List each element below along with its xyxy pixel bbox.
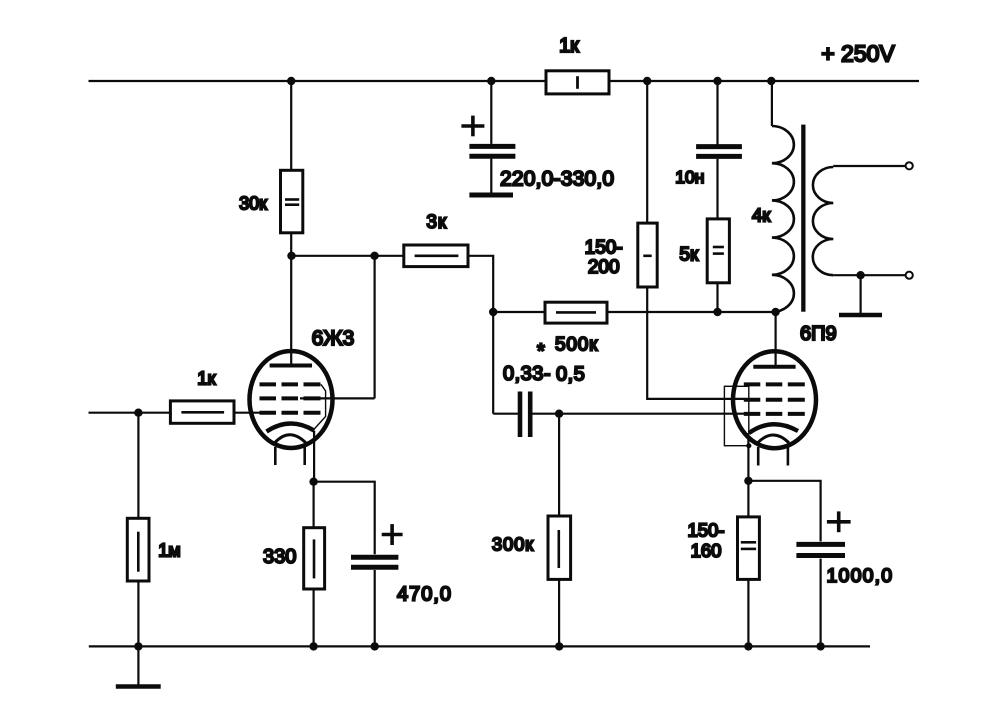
wire: 500k right lead to anode of V2 bbox=[607, 311, 776, 313]
heater arc of V2 bbox=[757, 435, 789, 443]
resistor 1M grid leak, with power mark bbox=[127, 518, 149, 581]
resistor 1k (supply dropper), with 1W power mark bbox=[546, 71, 609, 94]
svg-text:6П9: 6П9 bbox=[800, 323, 837, 345]
node: junction dot secondary ground tap bbox=[856, 271, 864, 279]
resistor 5k snubber, with power marks bbox=[707, 219, 729, 283]
node: junction dot primary bottom / anode bbox=[771, 308, 779, 316]
capacitor 470,0 cathode bypass bbox=[351, 557, 398, 646]
resistor 300k grid leak of V2, with power mark bbox=[548, 516, 571, 579]
wire: 300k top lead bbox=[558, 414, 560, 516]
ground: filter cap ground bar bbox=[469, 193, 513, 198]
wire: 1M bottom lead bbox=[137, 581, 139, 646]
svg-text:1к: 1к bbox=[559, 35, 579, 57]
resistor 150-160 cathode bias of V2, with power marks bbox=[738, 517, 760, 580]
tube V1 6Ж3 envelope bbox=[250, 351, 333, 448]
wire: 300k bottom lead bbox=[558, 579, 560, 646]
svg-text:1м: 1м bbox=[158, 541, 180, 561]
tube V2 6П9 envelope bbox=[733, 351, 816, 448]
wire: 150-160 bottom to rail bbox=[747, 579, 749, 646]
wire: 30k bottom to anode of V1 bbox=[290, 233, 292, 364]
svg-text:200: 200 bbox=[588, 257, 620, 278]
wire: 1k to V1 control grid bbox=[234, 412, 262, 414]
capacitor 220,0-330,0 electrolytic (filter), from rail bbox=[469, 81, 515, 193]
terminal: output bottom circle bbox=[906, 272, 913, 279]
grid g3 dashes of V1 (top row) bbox=[260, 382, 321, 386]
heater arc of V1 bbox=[275, 435, 307, 443]
wire: secondary bottom lead to output terminal bbox=[833, 274, 905, 276]
wire: cathode to 470,0 cap bbox=[314, 482, 375, 555]
capacitor 0,33-0,5 coupling plates bbox=[518, 392, 533, 438]
svg-text:470,0: 470,0 bbox=[397, 584, 452, 606]
resistor 500k feedback, with power mark bbox=[545, 302, 607, 323]
wire: 10n to 5k bbox=[716, 159, 718, 219]
svg-text:330: 330 bbox=[263, 546, 296, 568]
svg-text:300к: 300к bbox=[492, 533, 534, 554]
label polarity plus of filter cap bbox=[461, 116, 484, 137]
heater pin right of V1 bbox=[303, 447, 306, 465]
node: junction dot V1 cathode bbox=[309, 478, 317, 486]
svg-text:160: 160 bbox=[691, 540, 722, 561]
grid g2 screen dashes of V2 (middle row) bbox=[744, 398, 805, 402]
svg-text:5к: 5к bbox=[679, 245, 699, 266]
resistor 3k (decoupling), with power mark bbox=[404, 245, 468, 267]
wire: 5k bottom lead bbox=[716, 283, 718, 312]
wire: thin beam-plate rectangle of V2 tied to cathode bbox=[724, 386, 748, 445]
wire: 10n top lead bbox=[716, 81, 718, 145]
node: junction dot 5k to anode line bbox=[713, 308, 721, 316]
ground: left ground bar bbox=[116, 684, 161, 689]
wire: down from 3k-left node to V1 screen grid bbox=[374, 256, 376, 399]
grid g2 screen dashes of V1 (middle row) bbox=[260, 396, 321, 400]
node: junction dot 1000,0 on bottom rail bbox=[816, 642, 824, 650]
wire: input line bbox=[89, 412, 171, 414]
node: junction dot 500k tap on 3k drop wire bbox=[489, 308, 497, 316]
wire: +250V top supply rail (right of 1k) bbox=[609, 80, 919, 82]
node: junction dot filter cap on rail bbox=[487, 77, 495, 85]
resistor 330 cathode bias, with power mark bbox=[304, 528, 325, 589]
cathode arc of V2 bbox=[749, 424, 798, 433]
transformer T1 secondary winding bbox=[813, 167, 834, 275]
wire: thin g3-to-cathode internal link of V1 bbox=[314, 384, 326, 429]
grid g1 control dashes of V1 (bottom row) bbox=[260, 411, 321, 415]
wire: V2 anode lead from primary bbox=[774, 312, 776, 365]
node: junction dot 470,0 on bottom rail bbox=[371, 642, 379, 650]
terminal: output top circle bbox=[906, 162, 913, 169]
wire: secondary top lead to output terminal bbox=[833, 165, 905, 167]
svg-text:0,33-: 0,33- bbox=[503, 363, 551, 385]
wire: 330 bottom to rail bbox=[313, 589, 315, 646]
svg-text:500к: 500к bbox=[555, 335, 598, 356]
wire: into coupling cap bbox=[493, 413, 518, 415]
wire: V1 screen grid horizontal bbox=[300, 397, 375, 399]
node: junction dot 150-160 on bottom rail bbox=[744, 642, 752, 650]
wire: +250V top supply rail (left of 1k) bbox=[89, 80, 547, 82]
label polarity plus of 1000,0 bbox=[827, 511, 851, 532]
wire: ground bottom rail bbox=[89, 645, 870, 647]
wire: V2 cathode to 1000,0 cap bbox=[748, 481, 820, 542]
svg-text:220,0-330,0: 220,0-330,0 bbox=[500, 168, 614, 191]
svg-text:3к: 3к bbox=[426, 212, 447, 233]
svg-text:1000,0: 1000,0 bbox=[827, 565, 894, 587]
svg-text:150-: 150- bbox=[585, 238, 623, 259]
wire: V1 cathode down to 330 bbox=[313, 482, 315, 528]
node: junction dot 3k left / screen feed bbox=[370, 252, 378, 260]
node: junction dot transformer primary on rail bbox=[767, 77, 775, 85]
svg-text:+ 250V: + 250V bbox=[821, 41, 895, 67]
wire: anode node A horizontal to 3k bbox=[291, 255, 404, 257]
node: junction dot 1M on bottom rail bbox=[134, 642, 142, 650]
wire: 150-200 down and right to V2 screen grid bbox=[647, 287, 744, 399]
node: small dot rectangle-cathode join bbox=[746, 443, 751, 448]
label polarity plus of 470,0 bbox=[382, 524, 403, 545]
wire: coupling cap to V2 control grid bbox=[533, 413, 745, 415]
node: junction dot grid / 300k bbox=[555, 410, 563, 418]
anode plate of V1 bbox=[270, 364, 312, 368]
node: junction dot 150-200 on rail bbox=[643, 77, 651, 85]
svg-text:150-: 150- bbox=[687, 519, 724, 540]
ground: secondary ground bar bbox=[839, 313, 882, 318]
capacitor 10n snubber bbox=[696, 147, 742, 157]
capacitor 1000,0 cathode bypass of V2 bbox=[796, 544, 845, 646]
transformer T1 core bar bbox=[801, 125, 805, 312]
wire: primary top lead bbox=[771, 81, 773, 126]
node: junction dot 10n/5k on rail bbox=[713, 77, 721, 85]
svg-text:0,5: 0,5 bbox=[556, 364, 585, 386]
wire: 1M top lead bbox=[137, 413, 139, 519]
wire: 3k right lead and drop to coupling cap bbox=[468, 256, 493, 414]
heater pin right of V2 bbox=[787, 447, 790, 466]
svg-text:4к: 4к bbox=[752, 205, 771, 226]
resistor 150-200 screen feed, with power mark bbox=[638, 223, 657, 287]
wire: 150-200 top lead bbox=[646, 81, 648, 223]
grid g3 dashes of V2 (top row) bbox=[744, 382, 805, 386]
ground: left ground symbol stem bbox=[137, 646, 139, 685]
node: junction dot 330 on bottom rail bbox=[309, 642, 317, 650]
heater pin left of V2 bbox=[757, 447, 760, 466]
node: junction dot 300k on bottom rail bbox=[555, 642, 563, 650]
anode plate of V2 bbox=[753, 365, 795, 369]
wire: V2 cathode to 150-160 bbox=[747, 481, 749, 517]
wire: V2 cathode lead down bbox=[747, 433, 749, 481]
wire: 30k from rail down bbox=[290, 81, 292, 170]
wire: V1 cathode lead down bbox=[313, 431, 315, 482]
resistor 30k (anode load), with power marks bbox=[281, 170, 303, 233]
heater pin left of V1 bbox=[274, 447, 277, 465]
transformer T1 primary winding 4k bbox=[772, 126, 794, 312]
node: junction dot 30k on rail bbox=[287, 77, 295, 85]
svg-text:10н: 10н bbox=[675, 167, 704, 187]
svg-text:30к: 30к bbox=[239, 194, 267, 214]
cathode arc of V1 bbox=[267, 423, 315, 431]
ground: secondary ground stem bbox=[859, 275, 861, 313]
wire: 500k left lead bbox=[493, 311, 545, 313]
node: junction dot V2 cathode bbox=[744, 477, 752, 485]
node: junction dot 30k/anode/3k bbox=[287, 252, 295, 260]
svg-text:1к: 1к bbox=[197, 368, 216, 389]
resistor 1k grid stopper, with power mark bbox=[170, 401, 234, 423]
grid g1 control dashes of V2 (bottom row) bbox=[744, 412, 805, 416]
svg-text:6Ж3: 6Ж3 bbox=[312, 327, 355, 350]
svg-text:*: * bbox=[537, 341, 545, 363]
node: junction dot input / 1M bbox=[134, 409, 142, 417]
